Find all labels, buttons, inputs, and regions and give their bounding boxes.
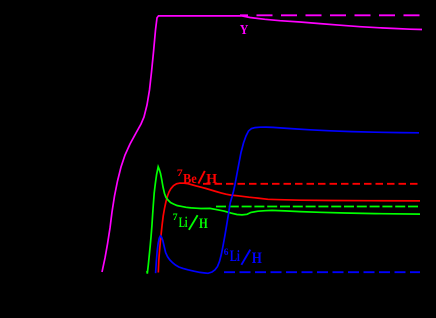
svg-text:H: H <box>199 216 208 232</box>
magenta dashed line (final Y value) <box>240 14 421 16</box>
blue dashed line <box>224 271 420 273</box>
svg-text:6: 6 <box>224 248 229 258</box>
svg-text:H: H <box>252 250 262 267</box>
red dashed line <box>203 183 420 185</box>
green solid curve 7Li/H <box>147 167 420 274</box>
svg-text:Li: Li <box>179 215 188 231</box>
green dashed line <box>216 206 420 208</box>
blue solid curve 6Li/H <box>156 127 419 273</box>
svg-text:Y: Y <box>240 23 249 38</box>
magenta solid curve Y <box>102 16 422 272</box>
svg-text:Be: Be <box>183 172 197 187</box>
red solid curve 7Be/H <box>158 183 420 272</box>
svg-text:7: 7 <box>173 212 179 222</box>
svg-text:Li: Li <box>230 248 241 265</box>
svg-text:H: H <box>206 172 217 187</box>
